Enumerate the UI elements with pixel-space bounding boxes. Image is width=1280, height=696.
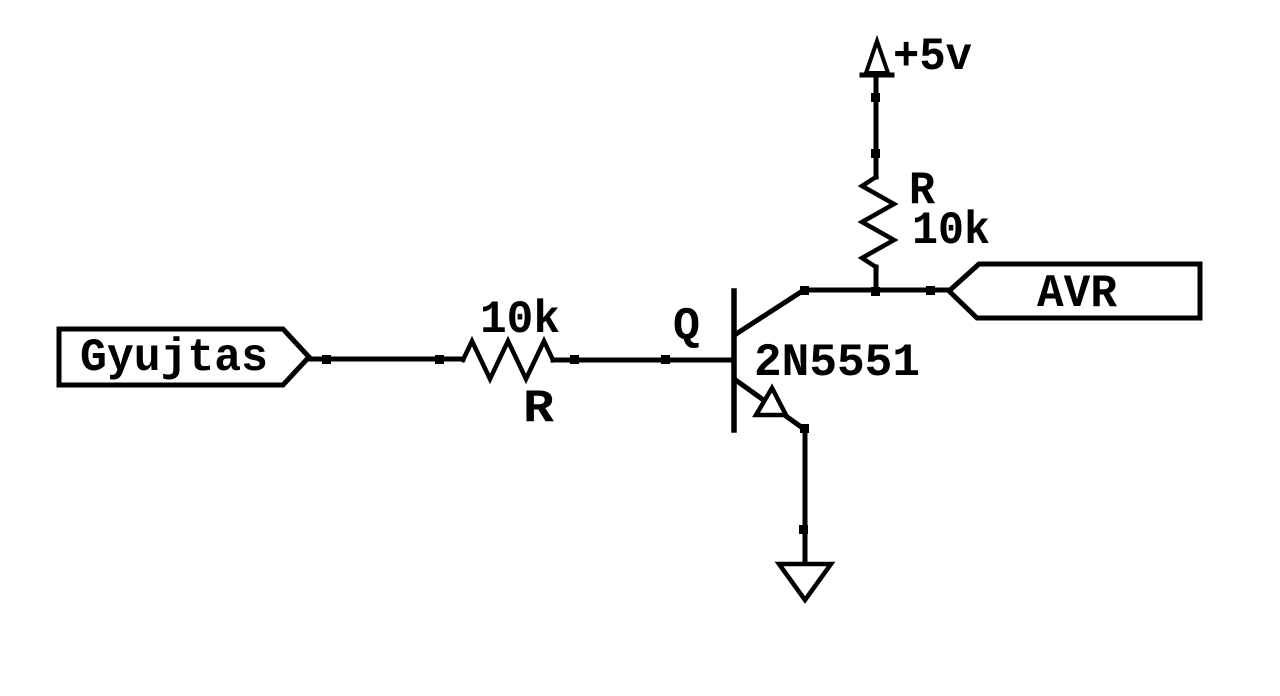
junction dot [570,355,579,364]
resistor R2 zigzag [862,177,894,267]
svg-text:+5v: +5v [893,31,972,83]
junction dot [435,355,444,364]
junction dot [322,355,331,364]
svg-text:R: R [523,383,554,435]
svg-text:AVR: AVR [1037,268,1117,320]
wire collector to junction [804,288,949,293]
svg-text:10k: 10k [480,294,560,346]
wire R2 to junction [874,267,879,291]
wire +5v to resistor R2 [874,75,879,177]
junction dot [871,149,880,158]
net flag Gyujtas [59,329,309,385]
junction dot [800,286,809,295]
net flag AVR [949,264,1200,318]
transistor emitter diagonal [737,381,804,429]
wire flag to resistor R1 [311,357,463,362]
junction dot [871,93,880,102]
transistor collector diagonal [736,290,804,334]
junction dot [800,424,809,433]
wire emitter to ground [803,429,808,562]
svg-text:Gyujtas: Gyujtas [80,332,268,384]
junction dot [799,525,808,534]
transistor emitter arrow [756,388,786,415]
svg-text:10k: 10k [912,205,990,257]
svg-text:Q: Q [673,301,700,353]
svg-text:2N5551: 2N5551 [754,337,920,389]
wire resistor R1 to base [553,358,732,363]
junction dot [926,286,935,295]
power +5v symbol [866,41,888,73]
transistor Q 2N5551 base bar [731,291,737,430]
power +5v base bar [862,73,892,78]
resistor R1 zigzag [463,341,553,379]
junction dot [661,355,670,364]
junction dot [871,287,880,296]
ground symbol [779,564,831,600]
